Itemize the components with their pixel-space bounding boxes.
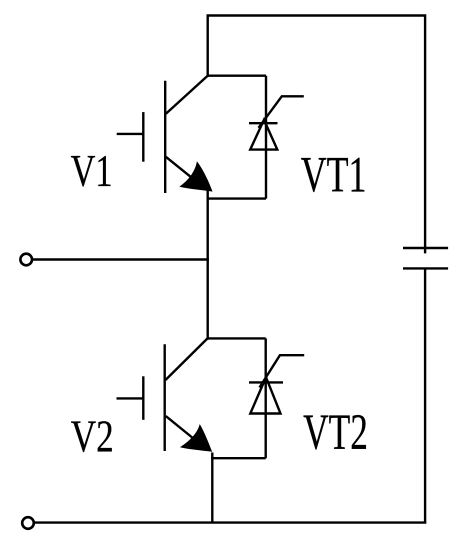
V1 emitter diagonal: [166, 157, 197, 182]
transistor V1 (IGBT): [117, 75, 213, 193]
VT2 gate lead: [260, 355, 305, 387]
V2 gate bar: [142, 376, 144, 420]
V1 gate lead: [117, 133, 144, 135]
svg-text:V2: V2: [71, 411, 114, 461]
terminal: mid-left output: [20, 254, 32, 266]
capacitor C bottom plate: [403, 267, 448, 269]
thyristor VT2: [249, 338, 304, 458]
VT1 cathode bar: [249, 122, 278, 124]
wire: center vertical (V2 emitter to bottom rail): [211, 453, 213, 523]
VT2 cathode bar: [249, 381, 283, 383]
capacitor C top plate: [403, 247, 448, 249]
wire: V1 emitter node horizontal: [207, 197, 267, 199]
thyristor VT1: [249, 76, 304, 199]
V1 collector diagonal: [166, 75, 208, 114]
V2 gate lead: [117, 397, 144, 399]
wire: bottom rail: [34, 521, 426, 523]
V2 emitter arrowhead: [180, 424, 212, 452]
VT1 gate lead: [259, 96, 304, 128]
V2 collector diagonal: [166, 338, 208, 380]
VT2 triangle: [250, 377, 280, 413]
svg-text:V1: V1: [71, 145, 113, 196]
wire: V1 collector node horizontal: [208, 74, 266, 76]
terminal: bottom-left output: [22, 517, 34, 529]
wire: positive rail (top-left vertical, top rail, right rail upper with stub past cap plate): [208, 16, 425, 254]
svg-text:VT1: VT1: [301, 148, 367, 203]
V2 body bar: [163, 344, 165, 451]
wire: V2 collector node horizontal: [207, 337, 265, 339]
V2 emitter diagonal: [166, 416, 197, 441]
VT2 branch vertical wire: [265, 338, 267, 458]
VT1 branch vertical wire: [265, 76, 267, 199]
wire: right rail lower: [424, 268, 426, 522]
svg-text:VT2: VT2: [303, 405, 368, 461]
V1 gate bar: [142, 112, 144, 162]
wire: midpoint output: [33, 258, 209, 260]
transistor V2 (IGBT): [117, 338, 213, 452]
V1 emitter arrowhead: [179, 161, 212, 191]
wire: center vertical (V1 emitter to V2 collector): [206, 190, 208, 340]
wire: V2 emitter node horizontal: [211, 457, 266, 459]
V1 body bar: [164, 81, 166, 193]
VT1 triangle: [250, 120, 277, 150]
